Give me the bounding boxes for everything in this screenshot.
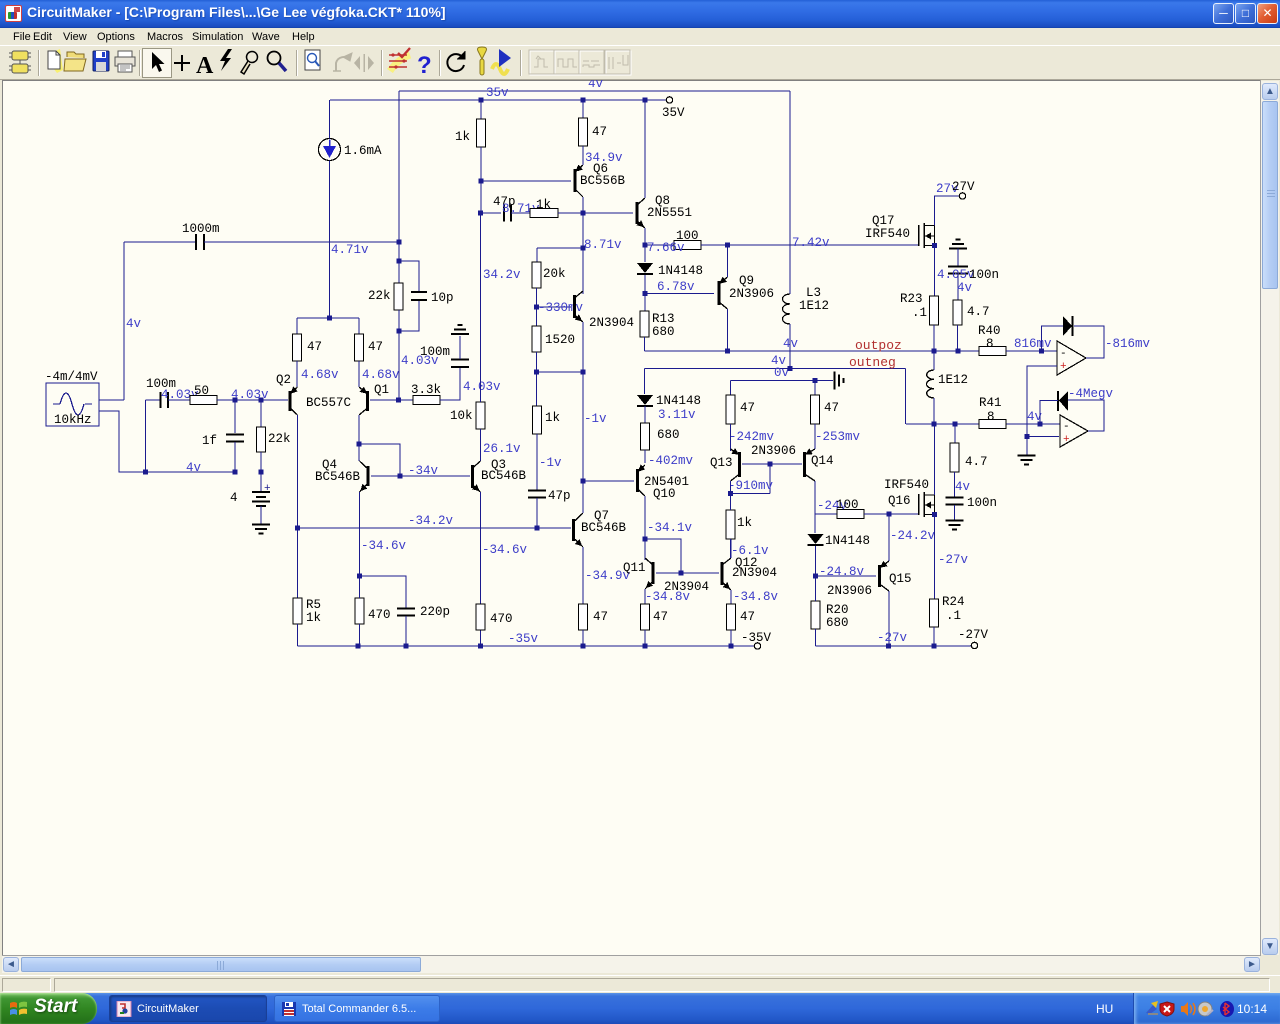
junction outpoz x934 xyxy=(932,349,937,354)
wire 470a top xyxy=(359,576,361,598)
wavebtn3 xyxy=(579,50,605,75)
svg-text:22k: 22k xyxy=(368,289,391,303)
svg-text:4v: 4v xyxy=(783,337,799,351)
transistor Q2 BC557C xyxy=(290,387,298,415)
wire Q15 collector down xyxy=(888,591,890,646)
wire V1 bottom pin to ground rail xyxy=(99,411,235,472)
junction 359-444 xyxy=(357,442,362,447)
wire 1k3 to 47p2 xyxy=(536,434,538,490)
svg-text:3.3k: 3.3k xyxy=(411,383,441,397)
svg-text:-1v: -1v xyxy=(584,412,607,426)
svg-text:R41: R41 xyxy=(979,396,1002,410)
op-amp U2 xyxy=(1060,415,1088,447)
svg-text:0v: 0v xyxy=(774,366,790,380)
diode D4 1N4148 xyxy=(808,534,824,544)
svg-text:Q13: Q13 xyxy=(710,456,733,470)
svg-text:10kHz: 10kHz xyxy=(54,413,92,427)
wire R13 bottom xyxy=(644,337,646,351)
wire op2 feedback right xyxy=(1068,400,1104,431)
svg-text:4v: 4v xyxy=(186,461,202,475)
junction 470a rail xyxy=(356,644,361,649)
diode D1 1N4148 xyxy=(637,263,653,273)
transistor Q17 IRF540 xyxy=(919,223,935,248)
svg-text:Q17: Q17 xyxy=(872,214,895,228)
wire Q4-Q3 base xyxy=(371,475,466,477)
svg-text:4.71v: 4.71v xyxy=(331,243,369,257)
svg-text:6.78v: 6.78v xyxy=(657,280,695,294)
resistor 47 Q1 xyxy=(355,334,364,361)
wire Q12 base xyxy=(681,572,719,574)
battery 4 xyxy=(252,492,270,506)
wire Q13 emitter to 1k xyxy=(730,481,732,510)
source V1 -4m/4mV box xyxy=(46,383,99,426)
svg-text:Q11: Q11 xyxy=(623,561,646,575)
wire Q6 collector down xyxy=(582,197,584,294)
junction outpoz x958 xyxy=(956,349,961,354)
junction Q16 source xyxy=(932,512,937,517)
svg-text:2N3906: 2N3906 xyxy=(729,287,774,301)
svg-text:R40: R40 xyxy=(978,324,1001,338)
wire 470a bottom xyxy=(359,624,361,646)
diode D3 1N4148 xyxy=(637,395,653,405)
resistor 1k Q13 xyxy=(726,510,735,539)
svg-text:47: 47 xyxy=(307,340,322,354)
wire R5 top xyxy=(297,528,299,598)
wire 4v rail y=100 to 35V terminal xyxy=(330,99,666,101)
wire -35V rail xyxy=(298,645,755,647)
junction R24 rail xyxy=(932,644,937,649)
wire tail top link xyxy=(297,317,359,319)
wire 20k bottom xyxy=(536,288,538,307)
wire 20k top xyxy=(536,248,538,262)
svg-text:-27v: -27v xyxy=(877,631,908,645)
svg-text:4.68v: 4.68v xyxy=(362,368,400,382)
svg-text:470: 470 xyxy=(490,612,513,626)
svg-text:4.03v: 4.03v xyxy=(463,380,501,394)
transistor Q16 IRF540 xyxy=(919,492,935,517)
wire V1 top pin xyxy=(99,399,124,401)
svg-text:1E12: 1E12 xyxy=(938,373,968,387)
wire Q9 collector down xyxy=(727,309,729,351)
wire Q5 emitter to Q7 collector xyxy=(582,322,584,513)
svg-text:BC546B: BC546B xyxy=(315,470,361,484)
junction 220p rail xyxy=(404,644,409,649)
wire outneg down xyxy=(905,369,907,425)
resistor 47 Q13 xyxy=(726,395,735,424)
svg-text:4.03v: 4.03v xyxy=(401,354,439,368)
resistor 4.7 a xyxy=(953,300,962,325)
junction 0v 815 xyxy=(813,378,818,383)
wire diode1 top xyxy=(644,245,646,262)
svg-text:R13: R13 xyxy=(652,312,675,326)
svg-text:8.71v: 8.71v xyxy=(584,238,622,252)
svg-text:47: 47 xyxy=(593,610,608,624)
probe xyxy=(241,52,258,75)
magnifier xyxy=(268,52,287,72)
resistor 22k input xyxy=(257,427,266,452)
junction 235-400 xyxy=(233,398,238,403)
resistor R23 .1 xyxy=(930,296,939,325)
svg-text:1k: 1k xyxy=(536,198,551,212)
wire 1f top xyxy=(234,400,236,433)
capacitor 220p xyxy=(397,609,415,616)
bolt xyxy=(220,49,232,71)
wire x481 column down xyxy=(480,213,482,402)
wire D4 to R20 xyxy=(815,546,817,576)
transistor Q8 2N5551 xyxy=(637,198,645,228)
svg-text:A: A xyxy=(196,53,214,79)
wire 22k-2 bottom xyxy=(260,452,262,472)
svg-text:-34v: -34v xyxy=(408,464,439,478)
svg-text:2N3904: 2N3904 xyxy=(732,566,777,580)
svg-text:680: 680 xyxy=(652,325,675,339)
wrench xyxy=(478,47,487,75)
toolbar xyxy=(0,45,1280,80)
capacitor 1f xyxy=(226,435,244,442)
wire Q1 base xyxy=(370,399,398,401)
wire R47b top xyxy=(358,318,360,334)
wire 20k link xyxy=(537,247,583,249)
transistor Q10 2N5401 xyxy=(638,465,646,496)
wire Q11 emitter xyxy=(644,589,646,604)
junction 261-472 xyxy=(259,470,264,475)
svg-text:Q1: Q1 xyxy=(374,383,389,397)
junction Q15 emitter xyxy=(887,512,892,517)
current source I1 1.6mA xyxy=(319,139,341,161)
wire 1k1 top xyxy=(480,100,482,119)
wire Q16 drain up xyxy=(934,424,936,495)
resistor R40 8 xyxy=(979,347,1006,356)
open xyxy=(64,52,86,71)
save xyxy=(93,51,109,71)
junction 1k1 rail xyxy=(479,98,484,103)
wire R5 bottom xyxy=(297,624,299,646)
capacitor 100n a xyxy=(948,267,968,274)
junction Q3 rail xyxy=(478,644,483,649)
svg-text:4v: 4v xyxy=(126,317,142,331)
svg-text:-35v: -35v xyxy=(508,632,539,646)
wire 22k top xyxy=(398,261,400,283)
wire Q13-Q14 base xyxy=(742,463,802,465)
wire to R100b xyxy=(815,513,837,515)
transistor Q4 BC546B xyxy=(360,461,369,492)
resistor 10k xyxy=(476,402,485,429)
wire outpoz rail xyxy=(645,350,980,352)
inductor 1E12 out xyxy=(926,370,934,398)
wire -910 link xyxy=(731,493,771,495)
wire 1000m left xyxy=(124,241,196,243)
source V1 sine symbol xyxy=(53,393,92,415)
junction L2 outneg xyxy=(932,422,937,427)
wire Q3 base stub xyxy=(466,475,470,477)
svg-text:680: 680 xyxy=(657,428,680,442)
wire Q7 emitter down xyxy=(582,547,584,604)
wire to gnd op xyxy=(1026,437,1028,456)
svg-text:-34.2v: -34.2v xyxy=(408,514,454,528)
junction 47p rail xyxy=(535,526,540,531)
zoomdoc xyxy=(305,50,320,70)
capacitor 100m 2 xyxy=(451,360,469,368)
wire 539 link xyxy=(645,539,681,573)
inductor L3 1E12 xyxy=(783,294,791,324)
wire 10p top xyxy=(399,261,419,291)
svg-text:26.1v: 26.1v xyxy=(483,442,521,456)
resistor 100 out xyxy=(837,510,864,519)
svg-text:2N3906: 2N3906 xyxy=(751,444,796,458)
transistor Q12 2N3904 xyxy=(722,558,731,590)
transistor Q7 BC546B xyxy=(574,513,584,547)
wire Q12 emitter xyxy=(730,590,732,604)
wire cap to R 50 xyxy=(168,399,190,401)
junction 681-573 xyxy=(679,571,684,576)
svg-text:-402mv: -402mv xyxy=(648,454,694,468)
wire Q10 base link xyxy=(583,480,634,482)
resistor 100 drv xyxy=(674,241,701,250)
wire Q8 emitter down xyxy=(644,228,646,245)
svg-text:7.42v: 7.42v xyxy=(792,236,830,250)
wire R47b to Q1 emitter xyxy=(358,361,360,387)
wire op1 feedback left xyxy=(1042,326,1064,351)
svg-text:-6.1v: -6.1v xyxy=(731,544,769,558)
wire Q9 emitter up xyxy=(727,245,729,277)
scrollbars xyxy=(1261,81,1279,955)
svg-text:35V: 35V xyxy=(662,106,685,120)
junction Q9 outpoz xyxy=(725,349,730,354)
resistor 20k xyxy=(532,262,541,288)
wire 47Q12 bottom xyxy=(730,630,732,646)
svg-text:4v: 4v xyxy=(955,480,971,494)
svg-text:1k: 1k xyxy=(737,516,752,530)
svg-text:-34.8v: -34.8v xyxy=(645,590,691,604)
junction Q10 base xyxy=(581,479,586,484)
svg-text:-34.1v: -34.1v xyxy=(647,521,693,535)
wire R50 to Q2 base xyxy=(217,399,288,401)
chip icon xyxy=(9,51,31,73)
svg-text:BC546B: BC546B xyxy=(581,521,627,535)
wire Q13 emitter top xyxy=(730,424,732,451)
svg-text:34.2v: 34.2v xyxy=(483,268,521,282)
transistor Q6 BC556B xyxy=(575,165,583,197)
wire Q5 base xyxy=(537,306,572,308)
wire Q3 emitter down xyxy=(480,492,482,646)
wire 4.7b to cap xyxy=(954,472,956,497)
wire 1k1 bottom xyxy=(480,147,482,181)
resistor R13 680 xyxy=(640,311,649,337)
wire 47R top xyxy=(814,381,816,396)
wire 47L top xyxy=(730,381,732,396)
op-amp U1 xyxy=(1057,341,1086,375)
junction 645-245 xyxy=(643,243,648,248)
junction 359-576 xyxy=(357,574,362,579)
svg-text:4.68v: 4.68v xyxy=(301,368,339,382)
svg-text:47: 47 xyxy=(824,401,839,415)
junction 583-248 xyxy=(581,246,586,251)
svg-text:4v: 4v xyxy=(957,281,973,295)
wire 1k2 to Q8 xyxy=(558,212,633,214)
junction x399 y331 xyxy=(397,329,402,334)
wire 47-5 bottom xyxy=(582,146,584,165)
wire Q15 base xyxy=(816,575,877,577)
transistor Q14 2N3906 xyxy=(805,449,816,481)
junction 481-181 xyxy=(479,179,484,184)
wire 35v top rail y=91 xyxy=(399,90,790,92)
wire 100nb to gnd xyxy=(954,505,956,520)
reset circle xyxy=(447,51,465,71)
junction x399 y242 xyxy=(397,240,402,245)
wire battery top xyxy=(260,472,262,491)
status bar xyxy=(0,975,1280,993)
svg-text:4.7: 4.7 xyxy=(965,455,988,469)
svg-text:Q15: Q15 xyxy=(889,572,912,586)
diode D6 feedback xyxy=(1059,391,1068,411)
svg-text:34.9v: 34.9v xyxy=(585,151,623,165)
wire 220p bottom xyxy=(405,616,407,646)
svg-text:R23: R23 xyxy=(900,292,923,306)
svg-text:-27V: -27V xyxy=(958,628,989,642)
resistor 470 a xyxy=(355,598,364,624)
junction 537-307 xyxy=(534,305,539,310)
junction L3 outneg xyxy=(788,366,793,371)
wire 680b to Q10 xyxy=(644,450,646,463)
resistor 47 Q11 xyxy=(641,604,650,630)
wire L3 top xyxy=(789,91,791,294)
wire 100na to 4.7a xyxy=(957,274,959,300)
wire 4.7b top xyxy=(954,424,956,443)
resistor 22k bias xyxy=(394,283,403,310)
wire -27V rail xyxy=(816,645,972,647)
wire x399 seg xyxy=(398,242,400,261)
svg-text:1000m: 1000m xyxy=(182,222,220,236)
wire to cap 100m xyxy=(146,399,161,401)
svg-text:470: 470 xyxy=(368,608,391,622)
checkwires xyxy=(389,48,410,71)
svg-text:.1: .1 xyxy=(912,306,927,320)
resistor 1k drv xyxy=(533,406,542,434)
svg-text:Q16: Q16 xyxy=(888,494,911,508)
svg-text:4.7: 4.7 xyxy=(967,305,990,319)
wire battery bottom xyxy=(260,506,262,524)
wavebtn4 xyxy=(605,50,631,75)
wire 770 down xyxy=(769,464,771,494)
wavebtn2 xyxy=(554,50,580,75)
wire Q11 collector xyxy=(644,539,646,560)
svg-text:35v: 35v xyxy=(486,86,509,100)
resistor R41 8 xyxy=(979,420,1006,429)
resistor 50 xyxy=(190,396,217,405)
svg-text:?: ? xyxy=(417,52,432,79)
svg-text:47: 47 xyxy=(368,340,383,354)
svg-text:+: + xyxy=(1060,361,1067,373)
svg-text:outneg: outneg xyxy=(849,355,896,370)
wire Q2 collector down xyxy=(297,415,299,528)
wire R23 bottom xyxy=(933,325,935,351)
svg-text:3.11v: 3.11v xyxy=(658,408,696,422)
menu bar xyxy=(0,28,1280,45)
wire 10p bottom xyxy=(399,301,419,331)
wire outneg rail xyxy=(645,368,906,370)
svg-text:1N4148: 1N4148 xyxy=(825,534,870,548)
svg-text:-330mv: -330mv xyxy=(538,301,584,315)
svg-text:2N3904: 2N3904 xyxy=(589,316,634,330)
wire to 3.3k xyxy=(398,399,413,401)
junction 583-372 xyxy=(581,370,586,375)
svg-text:47p: 47p xyxy=(548,489,571,503)
terminal -27V xyxy=(971,642,977,648)
svg-text:.1: .1 xyxy=(946,609,961,623)
junction I1-318 xyxy=(327,316,332,321)
resistor 1k top xyxy=(477,119,486,147)
svg-text:816mv: 816mv xyxy=(1014,337,1052,351)
wire L3 bottom xyxy=(789,324,791,369)
wire R20 lead xyxy=(815,576,817,601)
junction 47Q7 rail xyxy=(581,644,586,649)
wire R24 bottom xyxy=(933,627,935,646)
wire L2 top xyxy=(933,351,935,370)
wire Q11 base xyxy=(656,572,681,574)
ground 100n b xyxy=(946,521,964,530)
wire 47Q11 bottom xyxy=(644,630,646,646)
wire Q16 source down xyxy=(934,515,936,600)
junction 47Q12 rail xyxy=(729,644,734,649)
junction base 770 xyxy=(768,462,773,467)
ground battery xyxy=(252,525,270,534)
transistor Q15 2N3906 xyxy=(880,561,890,591)
svg-text:1k: 1k xyxy=(455,130,470,144)
wire I1 bottom lead xyxy=(329,161,331,319)
wire x399 to Q1 base xyxy=(398,331,400,400)
wire Q9 base xyxy=(645,293,714,295)
ground 0v rail xyxy=(835,372,844,390)
capacitor 1000m xyxy=(196,234,204,250)
wire mirror link xyxy=(359,444,400,476)
capacitor 10p xyxy=(411,292,427,300)
svg-text:-910mv: -910mv xyxy=(728,479,774,493)
svg-text:47: 47 xyxy=(740,401,755,415)
wire Q8 collector up xyxy=(644,100,646,198)
title bar xyxy=(0,0,1280,28)
wire input branch down xyxy=(145,400,147,472)
svg-text:1N4148: 1N4148 xyxy=(658,264,703,278)
wire 4.7a bottom xyxy=(957,325,959,351)
svg-text:47: 47 xyxy=(653,610,668,624)
svg-text:Q14: Q14 xyxy=(811,454,834,468)
svg-text:1N4148: 1N4148 xyxy=(656,394,701,408)
transistor Q13 2N3906 xyxy=(731,449,740,481)
wire Q10 collector down xyxy=(644,496,646,539)
svg-text:BC546B: BC546B xyxy=(481,469,527,483)
resistor 470 b xyxy=(476,604,485,630)
wire R47a to Q2 emitter xyxy=(296,361,298,387)
svg-text:4.03v: 4.03v xyxy=(231,388,269,402)
svg-text:2N3906: 2N3906 xyxy=(827,584,872,598)
svg-text:R5: R5 xyxy=(306,598,321,612)
wire 10k to Q3 xyxy=(480,429,482,461)
wire 0v rail xyxy=(731,380,834,382)
svg-text:7.66v: 7.66v xyxy=(647,241,685,255)
svg-text:outpoz: outpoz xyxy=(855,338,902,353)
svg-text:1520: 1520 xyxy=(545,333,575,347)
transistor Q1 BC557C xyxy=(359,387,368,415)
svg-text:-242mv: -242mv xyxy=(729,430,775,444)
wire Q17 drain to 27V xyxy=(935,196,960,226)
svg-text:-: - xyxy=(1060,348,1067,360)
wire Q14 top xyxy=(814,424,816,449)
svg-text:1k: 1k xyxy=(306,611,321,625)
new xyxy=(48,49,63,73)
junction 145-472 xyxy=(143,470,148,475)
svg-text:-24.2v: -24.2v xyxy=(890,529,936,543)
wire I1 top lead xyxy=(329,100,331,139)
